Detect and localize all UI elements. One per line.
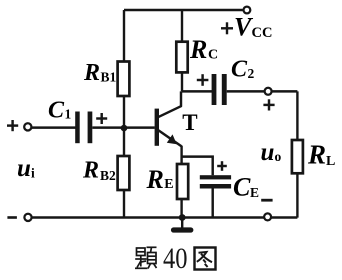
- label + of C2: [197, 74, 209, 86]
- caption 题 40 图: [135, 242, 216, 275]
- wire input to C1: [32, 126, 76, 128]
- svg-text:1: 1: [65, 107, 72, 122]
- svg-text:C: C: [208, 48, 218, 63]
- label + of C1: [96, 113, 107, 124]
- resistor RL: [292, 140, 303, 173]
- svg-text:u: u: [261, 139, 275, 166]
- svg-text:2: 2: [248, 66, 255, 81]
- svg-text:E: E: [250, 185, 259, 200]
- capacitor C1: [75, 112, 92, 144]
- node base junction: [121, 125, 128, 132]
- terminal +VCC: [244, 7, 251, 14]
- hand-drawn 题: [135, 247, 157, 268]
- transistor T emitter lead: [158, 130, 181, 146]
- svg-text:B2: B2: [100, 168, 116, 183]
- label + input: [7, 120, 18, 131]
- wire bottom rail: [32, 216, 297, 218]
- wire terminal to right rail: [272, 90, 297, 92]
- svg-text:i: i: [31, 166, 35, 181]
- wire collector to C2: [182, 90, 212, 92]
- wire top rail: [124, 9, 243, 11]
- svg-text:R: R: [83, 60, 100, 86]
- svg-text:R: R: [82, 158, 99, 184]
- svg-text:R: R: [307, 140, 326, 170]
- node emitter-ground junction: [179, 214, 186, 221]
- wire CE bottom lead: [211, 189, 213, 218]
- wire C2 to output terminal: [227, 90, 265, 92]
- svg-text:L: L: [326, 154, 335, 169]
- label RB1: [83, 60, 117, 86]
- svg-text:T: T: [182, 110, 197, 135]
- resistor RB2: [118, 156, 130, 190]
- svg-text:C: C: [231, 57, 248, 83]
- hand-drawn 图: [195, 248, 216, 270]
- label RE: [146, 165, 174, 194]
- label RC: [189, 35, 218, 64]
- transistor T emitter arrow: [167, 134, 177, 144]
- wire C1 to base: [92, 126, 154, 128]
- svg-text:E: E: [164, 177, 173, 192]
- label uo: [261, 139, 282, 166]
- label +VCC: [221, 12, 272, 41]
- label C1: [48, 97, 72, 123]
- resistor RC: [181, 10, 183, 91]
- label CE: [233, 173, 259, 202]
- svg-text:B1: B1: [101, 70, 117, 85]
- wire emitter to CE: [182, 157, 213, 176]
- wire left bias rail: [123, 10, 125, 218]
- terminal input -: [24, 214, 31, 221]
- terminal output +: [265, 88, 272, 95]
- svg-text:u: u: [17, 155, 31, 182]
- svg-text:40: 40: [163, 242, 188, 275]
- label C2: [231, 57, 255, 83]
- label RL: [307, 140, 335, 170]
- svg-text:CC: CC: [252, 25, 273, 41]
- svg-text:o: o: [275, 149, 282, 164]
- svg-text:R: R: [189, 35, 207, 64]
- label ui: [17, 155, 35, 182]
- capacitor C2: [212, 74, 227, 105]
- wire right rail: [296, 91, 298, 217]
- wire emitter rail: [180, 146, 182, 218]
- svg-text:C: C: [233, 173, 251, 202]
- terminal output -: [264, 213, 271, 220]
- svg-text:C: C: [48, 97, 65, 123]
- label + of CE: [217, 161, 227, 171]
- ground: [174, 218, 191, 231]
- terminal input +: [24, 123, 31, 130]
- label RB2: [82, 158, 116, 184]
- svg-text:R: R: [146, 165, 164, 194]
- label - output: [261, 199, 272, 202]
- label - input: [7, 216, 17, 219]
- transistor T collector lead: [158, 91, 181, 117]
- capacitor CE: [200, 175, 231, 188]
- label + output: [263, 99, 274, 110]
- transistor T base bar: [155, 109, 159, 146]
- resistor RE: [177, 164, 188, 199]
- resistor RB1: [118, 62, 130, 97]
